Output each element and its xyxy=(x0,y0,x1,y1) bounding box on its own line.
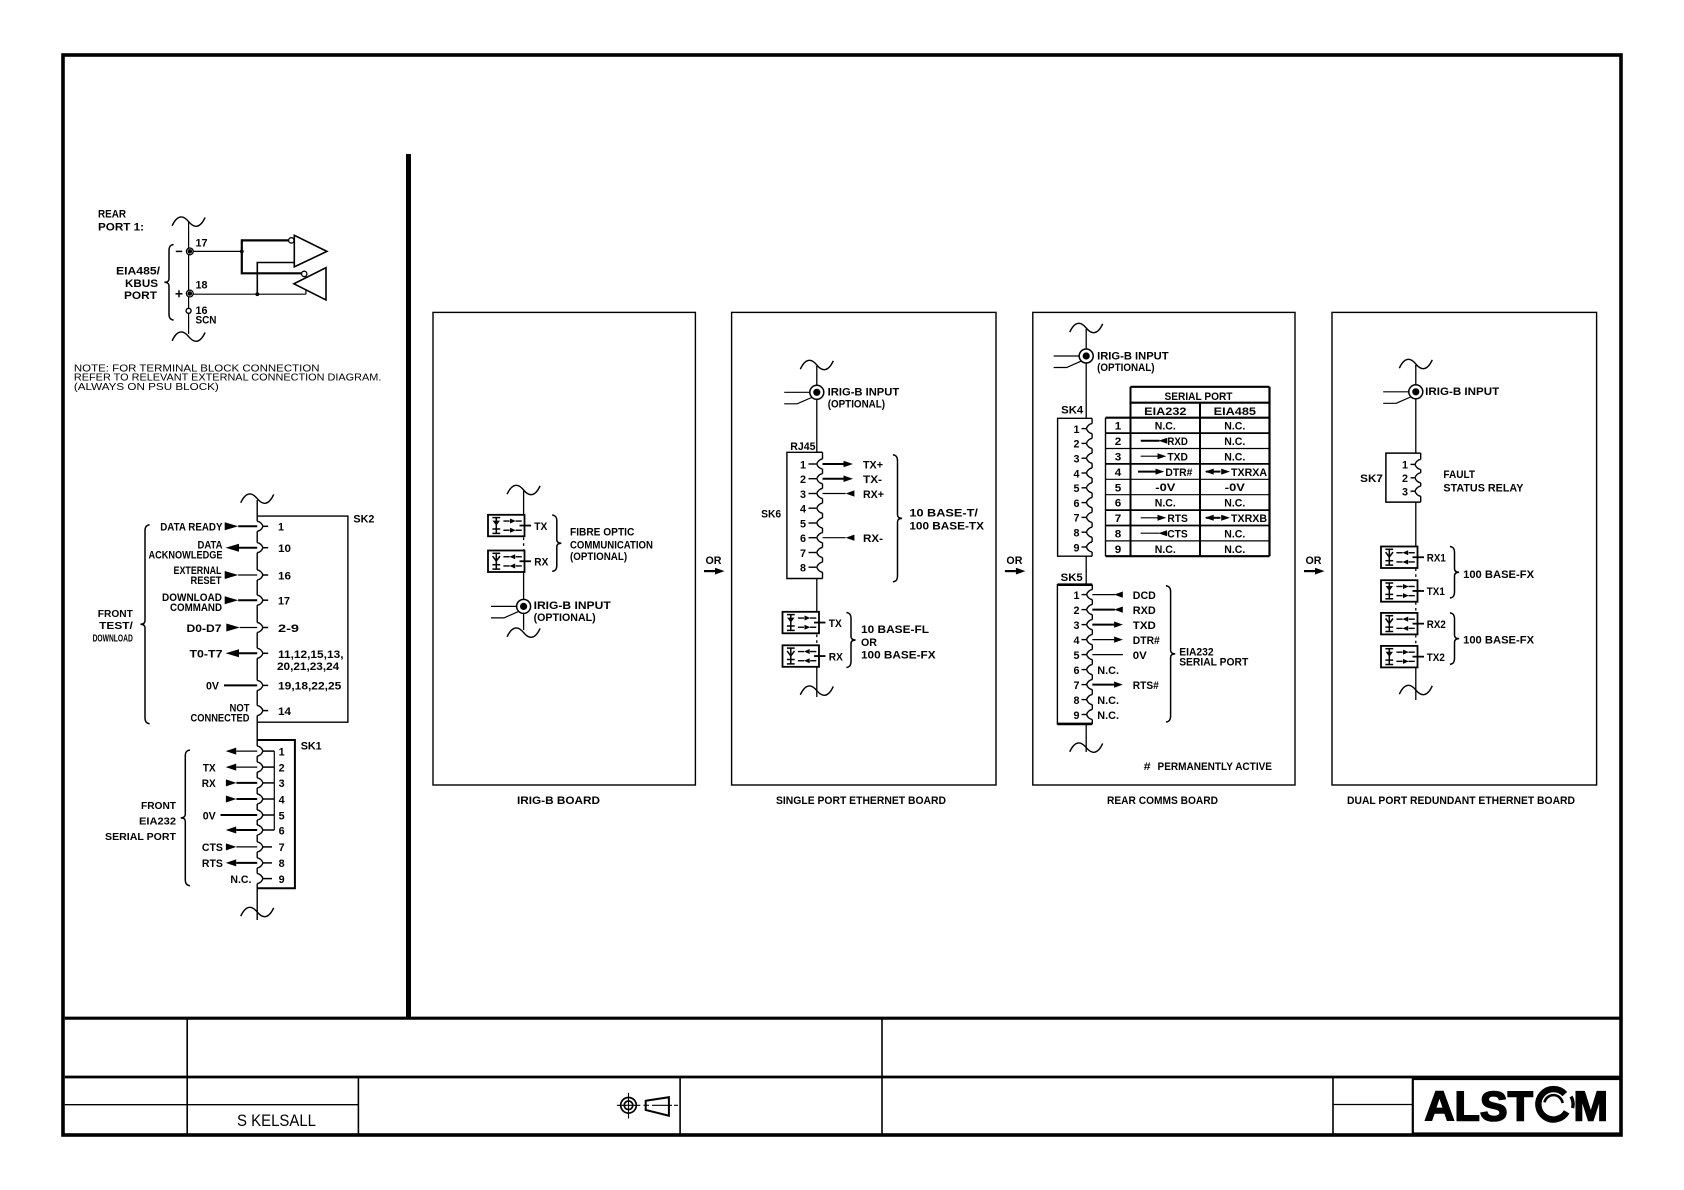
svg-text:N.C.: N.C. xyxy=(1224,436,1245,448)
minus polarity mark xyxy=(176,250,182,252)
svg-text:1: 1 xyxy=(1074,424,1080,436)
title block middle line xyxy=(65,1076,1621,1079)
title block vertical divider x680 xyxy=(679,1077,681,1134)
section divider thick line xyxy=(406,154,411,1018)
svg-text:9: 9 xyxy=(1074,710,1080,722)
svg-text:4: 4 xyxy=(1074,635,1081,647)
wire bus to IRIG-B input xyxy=(816,366,818,385)
wire bus below TX2 xyxy=(1415,667,1417,700)
SK5 contact stub pin 1 xyxy=(1082,594,1087,596)
svg-text:SK6: SK6 xyxy=(761,508,781,520)
wire bus SK2 to SK1 xyxy=(256,722,258,740)
svg-text:1: 1 xyxy=(1074,590,1080,602)
wire bus dashed TX1-RX2 xyxy=(1415,602,1417,612)
svg-text:EIA232: EIA232 xyxy=(1144,406,1186,418)
fibre optic module TX ethernet xyxy=(783,612,820,634)
table cell r8 CTS arrow xyxy=(1141,532,1160,534)
svg-text:3: 3 xyxy=(279,778,285,790)
signal RTS# arrow SK5 xyxy=(1092,684,1114,686)
svg-text:SK7: SK7 xyxy=(1360,473,1383,485)
svg-text:5: 5 xyxy=(1115,482,1122,494)
svg-text:TXRXA: TXRXA xyxy=(1231,467,1267,479)
svg-text:RTS: RTS xyxy=(1167,513,1188,525)
svg-text:COMMUNICATION: COMMUNICATION xyxy=(570,539,653,551)
title block vertical divider x358 xyxy=(357,1077,359,1134)
wire bus below SK1 xyxy=(256,888,258,920)
svg-text:9: 9 xyxy=(1074,542,1080,554)
svg-text:19,18,22,25: 19,18,22,25 xyxy=(278,681,341,693)
wire bus below RX module xyxy=(816,667,818,697)
svg-text:T0-T7: T0-T7 xyxy=(190,649,223,661)
signal RXD arrow SK5 xyxy=(1092,609,1115,611)
wire bus below SK5 xyxy=(1085,724,1087,752)
svg-text:RX: RX xyxy=(829,652,844,664)
svg-text:11,12,15,13,: 11,12,15,13, xyxy=(278,649,344,661)
svg-text:100 BASE-FX: 100 BASE-FX xyxy=(1463,569,1535,581)
svg-text:RXD: RXD xyxy=(1133,605,1156,617)
svg-text:-0V: -0V xyxy=(1225,482,1246,494)
svg-text:FIBRE OPTIC: FIBRE OPTIC xyxy=(570,526,634,538)
break squiggle bottom IRIG-B board xyxy=(507,628,540,637)
fibre optic module RX1 xyxy=(1381,547,1418,569)
signal DCD arrow xyxy=(1092,594,1115,596)
signal TX+ arrow xyxy=(823,463,845,465)
fibre optic module RX2 xyxy=(1381,613,1418,635)
svg-text:10 BASE-T/: 10 BASE-T/ xyxy=(909,508,978,520)
wire pin18 horizontal xyxy=(193,293,306,295)
svg-text:TX: TX xyxy=(203,762,217,774)
wire bus IRIG-B board lower xyxy=(523,613,525,630)
svg-text:DATA READY: DATA READY xyxy=(160,522,223,534)
brace FRONT TEST/DOWNLOAD xyxy=(140,525,149,724)
svg-text:FAULT: FAULT xyxy=(1443,469,1475,481)
IRIG-B input connector symbol rear comms xyxy=(1079,349,1093,363)
table cell r4 TXRXA arrows xyxy=(1205,469,1214,475)
svg-text:2: 2 xyxy=(279,762,285,774)
fibre optic module TX xyxy=(488,515,525,537)
svg-text:PORT: PORT xyxy=(124,290,157,302)
svg-text:D0-D7: D0-D7 xyxy=(187,623,222,635)
break squiggle bottom dual port xyxy=(1399,685,1432,694)
break squiggle top ethernet board xyxy=(800,360,833,369)
connector SK2 box xyxy=(257,516,348,722)
SK6 contact stub pin 2 xyxy=(809,478,817,480)
connector SK6 contacts spine xyxy=(822,452,824,459)
svg-text:9: 9 xyxy=(1115,544,1122,556)
svg-text:DOWNLOAD: DOWNLOAD xyxy=(93,634,133,645)
svg-text:100 BASE-TX: 100 BASE-TX xyxy=(909,521,984,533)
signal RX- arrow xyxy=(823,537,846,539)
svg-text:IRIG-B BOARD: IRIG-B BOARD xyxy=(517,795,600,807)
svg-text:6: 6 xyxy=(800,533,806,545)
title block top line xyxy=(65,1017,1621,1020)
title block small cell divider xyxy=(1333,1104,1413,1106)
wire bus SK7 to RX1 xyxy=(1415,502,1417,546)
svg-text:N.C.: N.C. xyxy=(1097,710,1119,722)
svg-text:6: 6 xyxy=(1074,665,1080,677)
SK5 contact stub pin 2 xyxy=(1082,609,1087,611)
board outline IRIG-B BOARD xyxy=(433,312,695,785)
svg-text:RX: RX xyxy=(202,778,217,790)
SK2 contact stub row 3 xyxy=(263,574,268,576)
svg-text:1: 1 xyxy=(1115,421,1122,433)
SK4 contact stub pin 9 xyxy=(1082,546,1087,548)
wire bus RJ45 to TX module xyxy=(816,579,818,612)
svg-text:2: 2 xyxy=(1074,605,1080,617)
svg-text:10: 10 xyxy=(278,543,291,555)
svg-text:8: 8 xyxy=(1074,695,1080,707)
SK5 contact stub pin 4 xyxy=(1082,639,1087,641)
svg-text:DUAL PORT REDUNDANT ETHERNE: DUAL PORT REDUNDANT ETHERNET BOARD xyxy=(1347,795,1575,807)
svg-text:SK5: SK5 xyxy=(1061,572,1083,584)
svg-text:TXD: TXD xyxy=(1133,620,1156,632)
svg-text:(OPTIONAL): (OPTIONAL) xyxy=(534,612,596,624)
svg-text:5: 5 xyxy=(1074,483,1080,495)
svg-text:1: 1 xyxy=(279,746,285,758)
svg-text:IRIG-B INPUT: IRIG-B INPUT xyxy=(828,387,900,399)
svg-text:N.C.: N.C. xyxy=(1224,421,1245,433)
terminal pin 16 SCN xyxy=(186,308,191,313)
svg-text:4: 4 xyxy=(1074,468,1081,480)
svg-text:S KELSALL: S KELSALL xyxy=(237,1112,316,1130)
wire bus SK4 to SK5 xyxy=(1085,556,1087,585)
brace 10 BASE-T group xyxy=(893,455,902,582)
svg-text:1: 1 xyxy=(800,459,806,471)
svg-text:DCD: DCD xyxy=(1133,590,1156,602)
table cell r3 TXD arrow xyxy=(1141,455,1158,457)
break squiggle above SK2 xyxy=(241,494,274,503)
svg-text:100 BASE-FX: 100 BASE-FX xyxy=(861,650,936,662)
svg-text:3: 3 xyxy=(1402,487,1408,499)
signal TX- arrow xyxy=(823,478,845,480)
SK1 contact stub row 2 xyxy=(263,766,274,768)
svg-text:3: 3 xyxy=(1074,454,1080,466)
svg-text:CONNECTED: CONNECTED xyxy=(191,712,250,724)
brace EIA485/KBUS PORT xyxy=(164,245,173,321)
svg-text:2: 2 xyxy=(800,474,806,486)
svg-text:0V: 0V xyxy=(1133,650,1148,662)
svg-text:TXD: TXD xyxy=(1167,451,1188,463)
buffer receiver triangle U1b xyxy=(294,268,326,300)
svg-text:N.C.: N.C. xyxy=(1224,498,1245,510)
svg-text:SERIAL PORT: SERIAL PORT xyxy=(1179,656,1248,668)
svg-text:9: 9 xyxy=(279,874,285,886)
svg-text:TX+: TX+ xyxy=(863,459,883,471)
SK5 contact stub pin 7 xyxy=(1082,684,1087,686)
svg-text:2: 2 xyxy=(1074,439,1080,451)
svg-text:TX2: TX2 xyxy=(1427,652,1445,664)
svg-text:4: 4 xyxy=(279,794,286,806)
connector SK7 contacts spine xyxy=(1420,453,1422,459)
wire bus dashed between TX RX xyxy=(523,538,525,550)
svg-text:REAR: REAR xyxy=(98,209,126,221)
svg-text:1: 1 xyxy=(278,522,284,534)
fibre optic module RX ethernet xyxy=(783,645,820,667)
svg-text:TX: TX xyxy=(534,521,548,533)
board outline REAR COMMS BOARD xyxy=(1033,312,1295,785)
svg-text:EIA232: EIA232 xyxy=(139,817,176,828)
break squiggle top xyxy=(172,217,205,226)
wire bus IRIG to SK7 xyxy=(1415,399,1417,453)
svg-text:SK2: SK2 xyxy=(353,513,374,525)
svg-text:CTS: CTS xyxy=(1167,528,1188,540)
break squiggle top rear comms xyxy=(1070,323,1103,332)
IRIG-B input connector symbol ethernet board xyxy=(810,385,824,399)
svg-text:RX1: RX1 xyxy=(1427,553,1446,565)
SK5 contact stub pin 9 xyxy=(1082,714,1087,716)
svg-text:14: 14 xyxy=(278,706,292,718)
svg-text:TX: TX xyxy=(829,618,843,630)
SK2 contact stub row 2 xyxy=(263,547,268,549)
SK7 contact stub pin 1 xyxy=(1411,463,1415,465)
break squiggle bottom ethernet board xyxy=(800,686,833,695)
SK1 contact stub row 9 xyxy=(263,878,272,880)
svg-text:IRIG-B INPUT: IRIG-B INPUT xyxy=(534,600,611,612)
SK6 contact stub pin 4 xyxy=(809,507,817,509)
svg-text:IRIG-B INPUT: IRIG-B INPUT xyxy=(1425,386,1499,398)
svg-text:5: 5 xyxy=(1074,650,1080,662)
SK7 contact stub pin 3 xyxy=(1411,490,1415,492)
wire bus dashed RX2-TX2 xyxy=(1415,635,1417,646)
wire bus IRIG to RJ45 xyxy=(816,399,818,452)
svg-text:100 BASE-FX: 100 BASE-FX xyxy=(1463,635,1535,647)
svg-text:IRIG-B INPUT: IRIG-B INPUT xyxy=(1097,350,1169,362)
SK4 contact stub pin 8 xyxy=(1082,531,1087,533)
IRIG-B input connector symbol dual port xyxy=(1409,385,1423,399)
IRIG-B input connector symbol xyxy=(517,599,531,613)
svg-text:7: 7 xyxy=(800,548,806,560)
title block vertical divider x187 xyxy=(186,1018,188,1134)
wire bus dashed TX-RX ethernet xyxy=(816,635,818,645)
break squiggle top IRIG-B board xyxy=(507,485,540,494)
svg-text:RX2: RX2 xyxy=(1427,619,1446,631)
svg-text:(OPTIONAL): (OPTIONAL) xyxy=(570,551,627,563)
SK1 contact stub row 6 xyxy=(263,829,274,831)
connector SK4 box xyxy=(1058,418,1093,556)
svg-text:EIA485: EIA485 xyxy=(1214,406,1256,418)
signal DTR# arrow SK5 xyxy=(1092,639,1114,641)
svg-text:18: 18 xyxy=(196,280,208,292)
SK4 contact stub pin 1 xyxy=(1082,428,1087,430)
SK6 contact stub pin 7 xyxy=(809,552,817,554)
SK1 contact stub row 4 xyxy=(263,798,274,800)
svg-text:DTR#: DTR# xyxy=(1165,467,1192,479)
svg-text:N.C.: N.C. xyxy=(1155,421,1176,433)
SK4 contact stub pin 7 xyxy=(1082,516,1087,518)
SK1 internal link line pins 1-6 xyxy=(273,751,275,830)
svg-text:FRONT: FRONT xyxy=(98,609,133,620)
signal 0V wire SK5 xyxy=(1092,654,1123,656)
svg-text:6: 6 xyxy=(279,825,285,837)
svg-text:N.C.: N.C. xyxy=(1097,665,1119,677)
SK5 contact stub pin 5 xyxy=(1082,654,1087,656)
wire bus dashed RX1-TX1 xyxy=(1415,569,1417,580)
svg-text:N.C.: N.C. xyxy=(1224,451,1245,463)
svg-text:OR: OR xyxy=(861,637,877,649)
signal TXD arrow SK5 xyxy=(1092,624,1114,626)
svg-text:OR: OR xyxy=(1306,555,1322,567)
svg-text:N.C.: N.C. xyxy=(230,874,251,886)
svg-text:-0V: -0V xyxy=(1155,482,1176,494)
svg-text:STATUS RELAY: STATUS RELAY xyxy=(1443,482,1524,494)
SK6 contact stub pin 3 xyxy=(809,493,817,495)
SK2 contact stub row 8 xyxy=(263,710,268,712)
connector SK5 box xyxy=(1057,585,1092,724)
terminal pin 18 xyxy=(186,290,193,297)
svg-text:5: 5 xyxy=(800,518,806,530)
wire bus to IRIG dual port xyxy=(1415,365,1417,385)
svg-text:ALST: ALST xyxy=(1425,1082,1534,1129)
svg-text:(OPTIONAL): (OPTIONAL) xyxy=(828,399,886,411)
SK1 row4 arrow in xyxy=(226,796,237,803)
fibre optic module TX2 xyxy=(1381,646,1418,668)
brace 10 BASE-FL group xyxy=(846,613,855,668)
SK4 contact stub pin 3 xyxy=(1082,457,1087,459)
svg-text:SK1: SK1 xyxy=(301,741,322,753)
table cell r4 DTR# arrow xyxy=(1138,471,1156,473)
buffer driver triangle U1a xyxy=(294,235,327,266)
svg-text:FRONT: FRONT xyxy=(141,801,176,812)
svg-text:0V: 0V xyxy=(203,810,217,822)
third angle projection symbol xyxy=(617,1093,678,1119)
break squiggle top dual port xyxy=(1399,359,1432,368)
table cell r7 RTS arrow xyxy=(1141,517,1158,519)
ALSTOM logo box xyxy=(1413,1079,1621,1134)
fibre optic module TX1 xyxy=(1381,580,1418,602)
svg-text:17: 17 xyxy=(196,238,208,250)
svg-text:3: 3 xyxy=(1115,452,1122,464)
svg-text:RX+: RX+ xyxy=(863,489,884,501)
svg-text:8: 8 xyxy=(1115,529,1122,541)
junction pin18 wire xyxy=(255,292,259,296)
SK6 contact stub pin 6 xyxy=(809,537,817,539)
brace fibre optic xyxy=(552,515,561,571)
svg-text:N.C.: N.C. xyxy=(1155,498,1176,510)
svg-text:8: 8 xyxy=(800,563,806,575)
svg-text:TX-: TX- xyxy=(863,474,882,486)
brace EIA232 SERIAL PORT rear xyxy=(1166,586,1175,722)
svg-text:N.C.: N.C. xyxy=(1155,544,1176,556)
svg-text:RX-: RX- xyxy=(863,533,883,545)
svg-text:2: 2 xyxy=(1402,473,1408,485)
inversion bubble buffer1 xyxy=(289,238,294,243)
title block row divider left xyxy=(65,1104,359,1106)
SK1 contact stub row 3 xyxy=(263,782,274,784)
svg-text:TX1: TX1 xyxy=(1427,586,1445,598)
svg-text:OR: OR xyxy=(1006,555,1022,567)
break squiggle below SK1 xyxy=(241,907,274,916)
SK7 contact stub pin 2 xyxy=(1411,477,1415,479)
svg-text:4: 4 xyxy=(1115,467,1122,479)
svg-text:PORT 1:: PORT 1: xyxy=(98,222,144,234)
SK1 contact stub row 8 xyxy=(263,862,272,864)
svg-text:N.C.: N.C. xyxy=(1224,528,1245,540)
svg-text:KBUS: KBUS xyxy=(125,278,158,290)
svg-text:TXRXB: TXRXB xyxy=(1231,513,1267,525)
SK4 contact stub pin 2 xyxy=(1082,442,1087,444)
SK2 contact stub row 1 xyxy=(263,525,268,527)
wire thick Z to buffers xyxy=(242,239,289,241)
svg-text:SK4: SK4 xyxy=(1061,405,1084,417)
connector SK5 contacts spine xyxy=(1091,585,1093,590)
svg-text:5: 5 xyxy=(279,810,285,822)
SK2 contact stub row 5 xyxy=(263,627,268,629)
svg-text:8: 8 xyxy=(1074,528,1080,540)
svg-text:RESET: RESET xyxy=(191,575,222,587)
SK1 row6 arrow out xyxy=(226,827,237,834)
SK2 contact stub row 6 xyxy=(263,652,268,654)
svg-text:(OPTIONAL): (OPTIONAL) xyxy=(1097,362,1155,374)
svg-text:RTS: RTS xyxy=(202,858,223,870)
svg-text:M: M xyxy=(1574,1082,1609,1129)
connector SK1 spine with contacts xyxy=(256,740,258,746)
svg-text:PERMANENTLY ACTIVE: PERMANENTLY ACTIVE xyxy=(1158,761,1273,773)
wire bus IRIG-B board mid xyxy=(523,572,525,599)
wire EIA485 bus xyxy=(188,222,190,334)
svg-text:RX: RX xyxy=(534,557,549,569)
svg-text:TEST/: TEST/ xyxy=(99,621,133,632)
svg-text:N.C.: N.C. xyxy=(1097,695,1119,707)
brace 100 BASE-FX lower xyxy=(1450,613,1459,665)
svg-text:SERIAL PORT: SERIAL PORT xyxy=(105,832,176,843)
svg-text:7: 7 xyxy=(1074,680,1080,692)
ALSTOM logo O swirl xyxy=(1538,1089,1573,1119)
svg-text:COMMAND: COMMAND xyxy=(170,602,222,614)
svg-text:16: 16 xyxy=(278,570,291,582)
SK1 contact stub row 1 xyxy=(263,750,274,752)
table cell r7 TXRXB arrows xyxy=(1205,515,1214,521)
svg-text:ACKNOWLEDGE: ACKNOWLEDGE xyxy=(149,550,223,562)
plus polarity mark xyxy=(176,293,183,295)
connector SK1 box xyxy=(257,740,295,888)
wire pin18 branch to driver input xyxy=(257,263,294,295)
break squiggle bottom xyxy=(172,332,205,341)
signal RX+ arrow xyxy=(823,493,846,495)
svg-text:SCN: SCN xyxy=(196,314,217,326)
svg-text:10 BASE-FL: 10 BASE-FL xyxy=(861,624,929,636)
svg-text:EIA485/: EIA485/ xyxy=(116,265,160,277)
SK4 contact stub pin 5 xyxy=(1082,487,1087,489)
svg-text:RJ45: RJ45 xyxy=(790,441,815,453)
svg-text:6: 6 xyxy=(1074,498,1080,510)
board outline SINGLE PORT ETHERNET BOARD xyxy=(732,312,996,785)
svg-text:#: # xyxy=(1144,761,1151,773)
break squiggle bottom rear comms xyxy=(1070,743,1103,752)
wire receiver output drop xyxy=(305,276,307,294)
svg-text:DTR#: DTR# xyxy=(1133,635,1160,647)
connector SK2 spine with contacts xyxy=(256,500,258,516)
svg-text:2: 2 xyxy=(1115,436,1122,448)
SK6 contact stub pin 5 xyxy=(809,522,817,524)
wire pin17 to driver xyxy=(193,250,242,252)
table cell r2 RXD arrow xyxy=(1141,440,1160,442)
svg-text:3: 3 xyxy=(1074,620,1080,632)
svg-text:6: 6 xyxy=(1115,498,1122,510)
SK5 contact stub pin 3 xyxy=(1082,624,1087,626)
SK6 contact stub pin 1 xyxy=(809,463,817,465)
SK1 row1 arrow out xyxy=(226,748,237,755)
table SERIAL PORT xyxy=(1106,387,1270,556)
SK5 contact stub pin 8 xyxy=(1082,699,1087,701)
wire bus to IRIG rear comms xyxy=(1085,329,1087,349)
SK6 contact stub pin 8 xyxy=(809,566,817,568)
svg-text:4: 4 xyxy=(800,504,807,516)
connector SK4 contacts spine xyxy=(1091,418,1093,423)
brace 100 BASE-FX upper xyxy=(1450,547,1459,599)
SK5 contact stub pin 6 xyxy=(1082,669,1087,671)
svg-text:7: 7 xyxy=(1074,513,1080,525)
svg-text:RXD: RXD xyxy=(1167,436,1188,448)
